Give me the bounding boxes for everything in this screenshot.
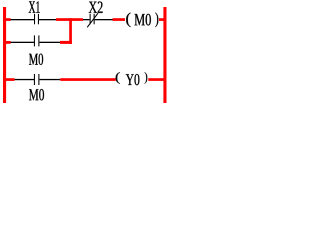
contact M0 (branch, normally open) xyxy=(34,35,39,46)
wire: rung3 black segment after contact xyxy=(40,79,61,80)
right power rail xyxy=(163,7,166,103)
coil M0 left paren xyxy=(126,13,130,28)
coil Y0 text xyxy=(126,74,140,85)
wire: rung3 red segment to right rail xyxy=(148,78,163,81)
coil Y0 right paren xyxy=(145,72,148,84)
wire: rung1 black segment to X1 xyxy=(11,19,35,20)
wire: rung3 long red segment to coil Y0 xyxy=(60,78,115,81)
wire: rung1 black segment X1 to junction xyxy=(39,19,56,20)
wire: rung1 red segment at branch junction xyxy=(56,18,83,21)
coil M0 text xyxy=(135,14,151,26)
wire: rung3 black segment to contact xyxy=(15,79,34,80)
label X1 xyxy=(29,1,40,13)
left power rail xyxy=(3,7,6,103)
label X2 xyxy=(89,2,103,13)
coil M0 right paren xyxy=(155,13,158,28)
label M0 (branch contact) xyxy=(29,54,43,65)
coil Y0 left paren xyxy=(116,72,120,84)
wire: rung1 red segment into coil M0 xyxy=(113,18,126,21)
wire: rung1 black segment to X2 xyxy=(83,19,90,20)
wire: rung2 black segment after contact xyxy=(40,42,61,43)
wire: rung3 red nub from left rail xyxy=(6,78,15,81)
wire: branch vertical red (junction to rung2) xyxy=(69,18,72,44)
contact X1 (normally open) xyxy=(34,14,39,24)
wire: rung2 red elbow to branch vertical xyxy=(60,41,72,44)
wire: rung1 red nub from left rail xyxy=(6,18,11,21)
contact M0 (rung3, normally open) xyxy=(34,74,39,85)
wire: rung1 red nub to right rail xyxy=(159,18,164,21)
wire: rung2 black segment to contact xyxy=(11,42,35,43)
wire: rung2 red nub from left rail xyxy=(6,41,11,44)
wire: rung1 black segment after X2 xyxy=(95,19,113,20)
contact X2 (normally closed) xyxy=(87,13,98,27)
label M0 (rung3 contact) xyxy=(29,89,44,100)
